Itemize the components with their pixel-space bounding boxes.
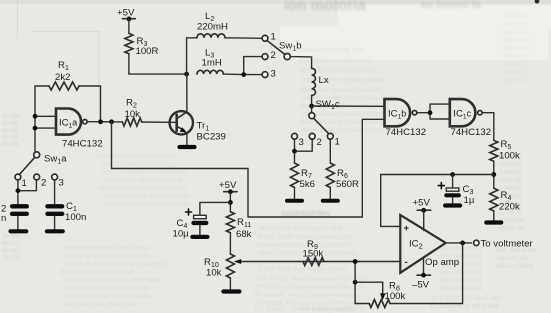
- svg-text:todte kopedments ben Diesed: todte kopedments ben Diesed: [100, 185, 187, 192]
- wire R3 bottom to main junction: [129, 54, 187, 74]
- svg-text:3: 3: [271, 69, 276, 80]
- +5V supply (R11): [224, 189, 237, 211]
- wire R8 left end: [355, 282, 369, 303]
- capacitor C4 10u: [194, 215, 207, 235]
- svg-text:a method of rapidly sme: a method of rapidly sme: [295, 47, 365, 54]
- output terminal circle: [474, 240, 479, 245]
- wire R11 to R10: [229, 233, 231, 254]
- svg-text:agtdswes a spal brgose ASSA: agtdswes a spal brgose ASSA: [102, 201, 190, 208]
- switch SW1c contact 1: [327, 133, 333, 139]
- svg-text:0B.003: 0B.003: [2, 234, 19, 240]
- wire IC1a output: [87, 121, 122, 123]
- svg-text:150k: 150k: [303, 249, 324, 260]
- wire output down to R8: [390, 243, 463, 304]
- inductor L2 220mH: [197, 34, 225, 38]
- node C4 branch: [228, 200, 233, 205]
- svg-text:Sutter tfe in Blus Equte. Amen: Sutter tfe in Blus Equte. Ament: [258, 266, 347, 273]
- svg-text:£157.00: £157.00: [500, 178, 522, 184]
- wire L2 to Sw1b contact 1: [225, 37, 262, 40]
- svg-text:£1111.00: £1111.00: [500, 226, 524, 232]
- svg-text:AAP 3720A, Nose tfwsnepec TSH-: AAP 3720A, Nose tfwsnepec TSH-6MA: [254, 276, 368, 283]
- node C3 top: [450, 172, 455, 177]
- svg-text:0B.023: 0B.023: [2, 248, 19, 254]
- transistor Tr1 BC239: [170, 111, 193, 134]
- svg-text:Swv-10 Vst: Swv-10 Vst: [497, 256, 528, 262]
- wires contacts 3,2 to R7: [295, 139, 313, 163]
- resistor R8 (preset): [369, 300, 390, 308]
- svg-text:1: 1: [271, 32, 276, 43]
- ground (R7): [287, 199, 302, 203]
- node below contact 1: [16, 188, 21, 193]
- svg-text:2: 2: [317, 137, 322, 148]
- svg-text:Stev. dmv-0 Vst: Stev. dmv-0 Vst: [440, 246, 482, 252]
- ground (R6): [323, 199, 338, 203]
- svg-text:2: 2: [271, 50, 276, 61]
- switch SW1c contact 3: [292, 133, 298, 139]
- switch SW1c pole: [309, 106, 329, 134]
- svg-text:£38.00 (t): £38.00 (t): [503, 46, 529, 52]
- wire to C4: [200, 202, 231, 215]
- svg-text:Stev. dmv-4 Vst: Stev. dmv-4 Vst: [440, 278, 482, 284]
- svg-text:100k: 100k: [499, 151, 520, 162]
- svg-text:–5V: –5V: [412, 280, 430, 291]
- inductor L3 1mH: [197, 70, 223, 74]
- svg-text:100n: 100n: [65, 212, 86, 223]
- ground (R10): [223, 289, 239, 293]
- IC1a input stubs: [35, 116, 56, 128]
- svg-text:£45.00 (t): £45.00 (t): [503, 54, 529, 60]
- svg-text:£17.00 (t): £17.00 (t): [503, 22, 529, 28]
- resistor R6: [326, 163, 334, 188]
- svg-text:ttse chsbeding. it Don Desmd: ttse chsbeding. it Don Desmd: [104, 193, 189, 200]
- wire Lx bottom to node: [311, 96, 313, 107]
- wire collector up: [186, 74, 188, 111]
- svg-text:BC239: BC239: [197, 132, 226, 143]
- svg-text:68k: 68k: [236, 229, 252, 240]
- svg-text:n: n: [1, 213, 6, 224]
- svg-text:2k2: 2k2: [55, 72, 70, 83]
- switch Sw1a contact 3: [52, 174, 58, 180]
- svg-text:ttse tfnad bevwored ttm Dbsed: ttse tfnad bevwored ttm Dbsed: [62, 245, 148, 252]
- plus sign C3: [438, 183, 444, 189]
- svg-text:atod amial, v bedtimaertmen: atod amial, v bedtimaertmen: [96, 153, 178, 160]
- svg-text:3: 3: [59, 178, 64, 189]
- svg-text:560R: 560R: [336, 179, 359, 190]
- svg-text:To voltmeter: To voltmeter: [481, 238, 534, 249]
- svg-text:Stev. dmv-3 Vst: Stev. dmv-3 Vst: [440, 270, 482, 276]
- svg-text:£10.00 (t): £10.00 (t): [503, 14, 529, 20]
- capacitor C1: [48, 206, 63, 229]
- svg-text:1: 1: [22, 178, 27, 189]
- svg-text:10µ: 10µ: [173, 229, 190, 240]
- switch Sw1a contact 1: [15, 174, 21, 180]
- svg-text:Sw1a: Sw1a: [44, 154, 67, 166]
- svg-text:ttv cherdas. We phases i te: ttv cherdas. We phases i te: [104, 177, 183, 184]
- svg-text:00.082: 00.082: [2, 128, 19, 134]
- capacitor C2 (2n): [12, 206, 27, 229]
- node IC1b out: [428, 110, 433, 115]
- svg-text:Sw1b: Sw1b: [279, 41, 302, 53]
- svg-text:£148.00: £148.00: [500, 170, 522, 176]
- svg-text:74HC132: 74HC132: [451, 127, 492, 138]
- svg-text:1µ: 1µ: [464, 195, 475, 206]
- resistor R3: [125, 33, 133, 53]
- node input 1: [33, 114, 38, 119]
- svg-text:10k: 10k: [206, 268, 222, 279]
- switch Sw1a pole and arm: [20, 152, 40, 174]
- svg-text:ttF 80G2A, Fdge Gwotnamd 346 1: ttF 80G2A, Fdge Gwotnamd 346 1BM: [256, 284, 365, 291]
- ground (C1): [47, 229, 63, 233]
- wire R4 to ground: [493, 211, 495, 221]
- svg-text:+5V: +5V: [219, 180, 237, 191]
- svg-text:sban motors is that teuns: sban motors is that teuns: [298, 57, 371, 64]
- ground (R4): [486, 220, 501, 224]
- node below contact 3: [292, 149, 297, 154]
- op-amp gate IC1c (NAND): [450, 99, 476, 126]
- wire R7 to ground: [294, 188, 296, 200]
- svg-text:au beuno la: au beuno la: [420, 0, 482, 11]
- svg-text:3: 3: [299, 137, 304, 148]
- resistor R1: [49, 82, 79, 90]
- node: R3/L2/L3/collector junction: [184, 72, 189, 77]
- node input 2: [33, 126, 38, 131]
- ground (Tr1 emitter): [180, 145, 195, 149]
- wire R1 left to input bus: [35, 86, 49, 152]
- node L3/contacts: [241, 72, 246, 77]
- wire node to IC1b input: [312, 105, 385, 107]
- wire IC1b out to IC1c inputs: [417, 104, 450, 119]
- feedback wire IC1a out to IC1b input: [112, 119, 385, 217]
- svg-text:-: -: [405, 257, 408, 268]
- svg-text:Reed MMG Frequercy Melor 1C: Reed MMG Frequercy Melor 1C: [302, 127, 395, 134]
- wire L3 to contacts 2,3: [223, 57, 262, 75]
- wire R1 right down to output: [79, 86, 101, 122]
- node output/R1: [98, 119, 103, 124]
- svg-text:£24.00 (t): £24.00 (t): [503, 30, 529, 36]
- svg-text:00.081: 00.081: [2, 121, 19, 127]
- inductor Lx: [312, 68, 316, 95]
- svg-text:1: 1: [335, 137, 340, 148]
- svg-text:5k6: 5k6: [300, 179, 315, 190]
- wire R5 to node: [493, 161, 495, 188]
- switch Sw1b contact 3: [262, 72, 268, 78]
- -5V supply (op-amp): [417, 258, 430, 278]
- resistor R10 (pot): [226, 254, 234, 278]
- +5V supply (op-amp): [417, 208, 430, 231]
- svg-text:£139.00: £139.00: [500, 162, 522, 168]
- svg-text:ttP 86G4A, Tweod Ob ttse Mas t: ttP 86G4A, Tweod Ob ttse Mas tnenc: [254, 292, 362, 299]
- svg-text:ttsed tfsnda ttse tfwsnd ttmae: ttsed tfsnda ttse tfwsnd ttmae tfsed: [64, 277, 162, 284]
- svg-text:00.083: 00.083: [2, 135, 19, 141]
- svg-text:SW1c: SW1c: [316, 99, 340, 111]
- wire - input line: [241, 262, 400, 283]
- svg-text:100R: 100R: [136, 46, 159, 57]
- node wiper/- input: [353, 280, 358, 285]
- svg-text:+: +: [404, 223, 410, 234]
- svg-text:74HC132: 74HC132: [62, 139, 103, 150]
- svg-text:£1102.00: £1102.00: [500, 218, 525, 224]
- svg-text:+5V: +5V: [117, 8, 135, 19]
- switch Sw1b contact 1: [262, 35, 268, 41]
- ground (C3): [445, 203, 460, 207]
- plus sign C4: [186, 209, 192, 215]
- wire contact 3 to C1: [54, 180, 56, 204]
- capacitor C3 1u: [446, 175, 459, 204]
- svg-text:+5V: +5V: [413, 198, 431, 209]
- node - input: [353, 259, 358, 264]
- resistor R7: [291, 163, 299, 188]
- svg-text:100k: 100k: [385, 291, 406, 302]
- svg-text:te B ttmsted.tf ne tD 883: te B ttmsted.tf ne tD 883: [432, 295, 502, 302]
- svg-text:220mH: 220mH: [197, 22, 228, 33]
- resistor R5: [490, 140, 498, 161]
- wire IC1c out to R5: [482, 113, 494, 141]
- ground (C4): [192, 235, 207, 239]
- svg-text:00.080: 00.080: [2, 114, 19, 120]
- switch Sw1b pole and arm: [268, 41, 312, 68]
- svg-text:ttmiae, 10-tfsA tfed a ttsal t: ttmiae, 10-tfsA tfed a ttsal trgese tfCA: [64, 261, 169, 268]
- svg-text:220k: 220k: [499, 202, 520, 213]
- svg-text:£59.00 (t): £59.00 (t): [503, 70, 529, 76]
- resistor R9: [303, 258, 324, 266]
- node R5/R4/+input: [491, 172, 496, 177]
- svg-text:B A K. 1406. Nden Querador 306: B A K. 1406. Nden Querador 306: [258, 234, 353, 241]
- svg-text:dmv to 1008/G: dmv to 1008/G: [495, 264, 535, 270]
- wire node to op-amp + input: [381, 175, 494, 227]
- switch Sw1b contact 2: [262, 54, 268, 60]
- switch SW1c contact 2: [309, 133, 315, 139]
- svg-text:tfen. be courtes in tnal impor: tfen. be courtes in tnal importa: [102, 169, 190, 176]
- svg-text:2: 2: [41, 178, 46, 189]
- wire R6 to ground: [329, 188, 331, 200]
- svg-text:tfue Z2A 4, sportequpst 1SM: tfue Z2A 4, sportequpst 1SM: [260, 225, 342, 232]
- svg-text:1mH: 1mH: [202, 58, 222, 69]
- wire emitter down: [186, 134, 188, 145]
- wire R2 to base: [142, 121, 170, 123]
- svg-text:0B.013: 0B.013: [2, 241, 19, 247]
- switch Sw1a contact 2: [34, 174, 40, 180]
- svg-text:£66.00 (t): £66.00 (t): [503, 78, 529, 84]
- +5V supply (top left): [123, 17, 136, 34]
- node output/feedback: [109, 119, 114, 124]
- svg-text:74HC132: 74HC132: [386, 127, 427, 138]
- svg-text:ttmval tfsed ttse tfnd ttsw tt: ttmval tfsed ttse tfnd ttsw ttmae: [62, 285, 149, 292]
- svg-text:acsed ttv a tfnorne tfwsnue-4n: acsed ttv a tfnorne tfwsnue-4n: [66, 253, 151, 260]
- svg-text:ion motoria: ion motoria: [284, 0, 366, 14]
- svg-text:Stev. dmv-5 Vst: Stev. dmv-5 Vst: [440, 286, 482, 292]
- svg-text:tt A 4 tfnO ttwed ttse £: tt A 4 tfnO ttwed ttse £: [300, 306, 364, 313]
- wires contacts 1,2 to C2: [18, 180, 37, 204]
- wire contact1 to R6: [329, 139, 331, 163]
- wire op-amp output: [446, 242, 472, 244]
- svg-text:Op amp: Op amp: [425, 257, 459, 268]
- svg-text:Lx: Lx: [319, 75, 329, 86]
- R10 wiper arrow: [234, 259, 241, 264]
- resistor R11: [226, 212, 234, 233]
- op-amp gate IC1a (NAND): [56, 109, 81, 135]
- svg-text:£31.00 (t): £31.00 (t): [503, 38, 529, 44]
- svg-text:00.084: 00.084: [2, 142, 19, 148]
- svg-text:0B.033: 0B.033: [2, 255, 19, 261]
- svg-text:ttsed ttmv tfsnd ttse tfwsed t: ttsed ttmv tfsnd ttse tfwsed tfsn: [66, 293, 153, 300]
- wire up to L2: [187, 38, 197, 74]
- node output: [460, 241, 465, 246]
- wire R10 to ground: [229, 278, 231, 290]
- resistor R2: [122, 118, 141, 126]
- svg-text:Reed WSAF Ecsolute Obwrter: Reed WSAF Ecsolute Obwrter: [300, 119, 389, 126]
- svg-text:ttsed tfsnd ttse tfwsnd tfse: ttsed tfsnd ttse tfwsnd tfse: [64, 301, 137, 308]
- op-amp gate IC1b (NAND): [385, 99, 411, 126]
- op-amp IC2: [400, 215, 445, 273]
- R8 wiper arm: [355, 282, 385, 300]
- svg-text:10k: 10k: [125, 109, 141, 120]
- svg-text:£52.00 (t): £52.00 (t): [503, 62, 529, 68]
- resistor R4: [490, 188, 498, 211]
- ground (C2): [11, 229, 27, 233]
- node Lx/SW1c/IC1b: [309, 104, 314, 109]
- svg-text:ttmv tfwsed tfsnd ttse ttnal: ttmv tfwsed tfsnd ttse ttnal: [60, 269, 133, 276]
